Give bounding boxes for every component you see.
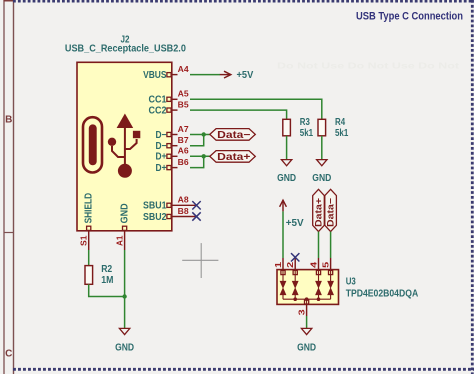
USB-C plug glyph outer stadium: [83, 117, 102, 172]
wire D+ A6 to label: [190, 155, 210, 157]
resistor R2 body: [85, 266, 93, 285]
wire +5V to U3 pin1: [282, 211, 284, 258]
svg-text:+5V: +5V: [237, 70, 254, 81]
U3 pin 2: [294, 258, 296, 270]
wire D+ B6 jog: [190, 156, 204, 167]
wire R2 bottom jog to A1 net: [89, 284, 125, 296]
pin D- B7 stub: [172, 145, 178, 147]
no-connect X on SBU1: [192, 201, 200, 209]
pin D- A7 square: [167, 132, 171, 136]
selection dashed border right: [471, 0, 474, 374]
svg-text:+5V: +5V: [286, 218, 304, 229]
U3 internal bus: [283, 298, 331, 300]
ground symbol under R3: [281, 160, 291, 166]
svg-text:A1: A1: [114, 235, 124, 246]
cursor crosshair: [182, 243, 218, 278]
svg-text:USB_C_Receptacle_USB2.0: USB_C_Receptacle_USB2.0: [65, 44, 186, 55]
svg-text:A8: A8: [178, 195, 189, 205]
svg-text:CC1: CC1: [149, 95, 167, 106]
pin SHIELD square: [87, 226, 91, 230]
svg-text:U3: U3: [346, 276, 356, 288]
svg-text:Data+: Data+: [217, 152, 250, 163]
sheet frame top cap: [4, 0, 15, 2]
svg-text:B7: B7: [178, 135, 189, 145]
power symbol +5V arrow (right): [220, 71, 231, 78]
pin D- B7 square: [167, 144, 171, 148]
svg-text:4: 4: [309, 262, 319, 268]
svg-text:5k1: 5k1: [335, 127, 348, 139]
power symbol +5V arrow (up) above U3: [280, 200, 287, 211]
USB-C plug glyph inner bar: [89, 124, 97, 165]
U3 bus junction middle: [305, 297, 309, 301]
U3 pin 3 square: [305, 300, 309, 304]
svg-text:GND: GND: [120, 203, 131, 223]
global label Data+ (horizontal): [210, 151, 256, 163]
pin VBUS stub: [172, 74, 178, 76]
sheet frame left border inner line: [13, 0, 15, 374]
resistor R3 body: [283, 119, 291, 136]
connector J2 body: [77, 62, 172, 231]
pin SBU1 square: [167, 203, 171, 207]
svg-text:D+: D+: [156, 163, 167, 174]
svg-text:Data+: Data+: [314, 198, 324, 227]
svg-text:1: 1: [273, 262, 283, 268]
global label Data+ (vertical): [313, 189, 325, 231]
U3 TVS diode D2: [292, 270, 299, 300]
svg-text:VBUS: VBUS: [143, 70, 167, 81]
pin D+ A6 stub: [172, 155, 178, 157]
no-connect X on SBU2: [192, 212, 200, 220]
wire Data+ label to U3 pin4: [318, 232, 320, 258]
wire CC2 to R3: [190, 110, 287, 119]
svg-text:C: C: [5, 348, 12, 359]
USB trident logo: [108, 114, 140, 178]
svg-text:TPD4E02B04DQA: TPD4E02B04DQA: [346, 288, 419, 300]
sheet frame left border outer line: [3, 0, 5, 374]
svg-text:B5: B5: [178, 99, 189, 109]
svg-text:USB Type C Connection: USB Type C Connection: [356, 11, 463, 23]
pin CC1 square: [167, 97, 171, 101]
wire CC1 to R4: [190, 99, 322, 119]
sheet frame row divider tick: [4, 232, 14, 234]
svg-text:GND: GND: [115, 343, 134, 354]
svg-text:B: B: [5, 114, 12, 125]
svg-text:D−: D−: [156, 141, 167, 152]
U3 body: [277, 270, 339, 305]
pin SBU1 line: [172, 204, 197, 206]
U3 bus junction left: [293, 297, 297, 301]
pin D+ B6 square: [167, 166, 171, 170]
svg-text:B8: B8: [178, 206, 189, 216]
wire R3 to GND: [286, 136, 288, 160]
no-connect X on U3 pin 2: [291, 253, 299, 261]
trident left circle: [108, 138, 116, 146]
svg-text:D+: D+: [156, 152, 167, 163]
svg-text:A4: A4: [178, 64, 189, 74]
pin SBU2 square: [167, 214, 171, 218]
selection dashed border top: [13, 0, 474, 3]
U3 TVS diode D1: [280, 270, 287, 300]
svg-text:R2: R2: [101, 263, 112, 275]
pin CC2 square: [167, 108, 171, 112]
U3 pin 1: [282, 258, 284, 270]
U3 pin 5: [330, 258, 332, 270]
U3 TVS diode D4: [327, 270, 334, 300]
svg-text:5k1: 5k1: [300, 127, 313, 139]
pin CC1 stub: [172, 98, 178, 100]
svg-text:B6: B6: [178, 157, 189, 167]
wire S1 to R2: [88, 250, 90, 266]
U3 pin 3: [306, 304, 308, 316]
selection dashed border bottom: [13, 368, 474, 371]
svg-text:D−: D−: [156, 130, 167, 141]
pin D+ A6 square: [167, 154, 171, 158]
wire Data- label to U3 pin5: [330, 232, 332, 258]
ground symbol under J2: [119, 328, 129, 334]
svg-text:SBU1: SBU1: [143, 201, 167, 212]
pin VBUS square: [167, 73, 171, 77]
wire D- B7 jog: [190, 135, 204, 146]
global label Data- (vertical): [325, 189, 337, 231]
trident right branch: [125, 139, 137, 149]
svg-text:A5: A5: [178, 89, 189, 99]
U3 pin 4 square: [316, 270, 320, 274]
svg-text:GND: GND: [312, 173, 331, 184]
junction D-: [202, 132, 206, 136]
trident left branch: [112, 146, 125, 157]
svg-text:A6: A6: [178, 146, 189, 156]
pin GND A1 stub: [124, 231, 126, 250]
global label Data- (horizontal): [210, 129, 256, 141]
U3 TVS diode D3: [315, 270, 322, 300]
resistor R4 body: [318, 119, 326, 136]
pin SBU2 line: [172, 216, 197, 218]
wire U3 pin3 to GND: [306, 316, 308, 328]
svg-text:A7: A7: [178, 124, 189, 134]
svg-text:CC2: CC2: [149, 105, 167, 116]
junction A1/R2: [122, 294, 126, 298]
svg-text:SHIELD: SHIELD: [84, 193, 95, 224]
svg-text:SBU2: SBU2: [143, 212, 167, 223]
U3 pin 5 square: [329, 270, 333, 274]
U3 pin 1 square: [281, 270, 285, 274]
U3 pin 2 square: [293, 270, 297, 274]
trident stem: [124, 122, 126, 168]
wire VBUS to +5V: [190, 74, 220, 76]
svg-text:5: 5: [321, 262, 331, 268]
svg-text:3: 3: [296, 309, 306, 315]
pin D+ B6 stub: [172, 167, 178, 169]
wire A1 down to GND: [124, 250, 126, 328]
svg-text:Data−: Data−: [326, 198, 336, 227]
svg-text:S1: S1: [79, 235, 89, 246]
trident bottom circle: [118, 164, 132, 178]
svg-text:GND: GND: [297, 343, 316, 354]
pin GND A1 square: [123, 226, 127, 230]
trident top arrow: [117, 114, 134, 129]
junction D+: [202, 154, 206, 158]
wire D- A7 to label: [190, 134, 210, 136]
pin CC2 stub: [172, 109, 178, 111]
svg-text:GND: GND: [277, 173, 296, 184]
svg-text:Do Not Use Do Not Use Do Not: Do Not Use Do Not Use Do Not: [277, 61, 459, 71]
svg-text:Data−: Data−: [217, 130, 250, 141]
U3 pin 4: [318, 258, 320, 270]
U3 bus junction right: [317, 297, 321, 301]
ground symbol under U3: [301, 328, 311, 334]
U3 internal bus drop to pin 3: [306, 299, 308, 304]
pin SHIELD stub: [88, 231, 90, 250]
wire R4 to GND: [321, 136, 323, 160]
pin D- A7 stub: [172, 134, 178, 136]
trident right square: [133, 131, 140, 138]
ground symbol under R4: [317, 160, 327, 166]
svg-text:1M: 1M: [101, 274, 113, 286]
svg-text:2: 2: [285, 262, 295, 268]
